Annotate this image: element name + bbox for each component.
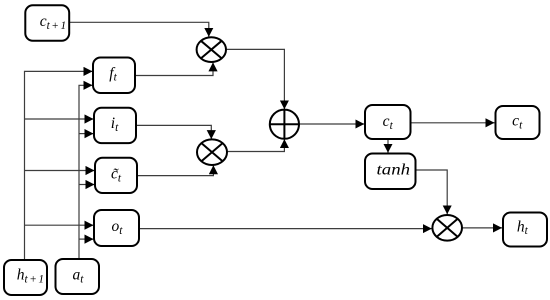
wire: c_t down to tanh bbox=[387, 139, 389, 153]
wire: o_t to multiply M3 bbox=[139, 228, 432, 230]
box f_t bbox=[93, 58, 135, 94]
wire: a net branch to i_t bbox=[79, 133, 94, 135]
multiply node M2 bbox=[197, 139, 227, 165]
wire: h net branch to o_t bbox=[25, 224, 94, 226]
wire: tanh to multiply M3 bbox=[416, 170, 448, 214]
multiply node M3 bbox=[432, 215, 462, 241]
wire: c_t to c_t output bbox=[411, 122, 495, 124]
wire: a_t net vertical + top branch to f_t bbox=[79, 85, 93, 259]
box h_{t+1} bbox=[4, 260, 47, 295]
box h_t bbox=[503, 213, 547, 247]
multiply node M1 bbox=[197, 37, 226, 62]
wire: i_t to multiply M2 bbox=[136, 125, 211, 139]
box c_{t+1} bbox=[25, 5, 69, 41]
wire: h net branch to i_t bbox=[25, 118, 94, 120]
box i_t bbox=[94, 108, 136, 143]
box c_t middle bbox=[365, 105, 411, 139]
box a_t bbox=[56, 259, 100, 294]
wire: M2 to plus P1 bbox=[227, 139, 284, 151]
box tanh bbox=[365, 154, 416, 190]
wire: c_{t+1} to multiply M1 bbox=[69, 22, 209, 37]
plus node P1 bbox=[270, 110, 299, 139]
wire: a net branch to o_t bbox=[79, 238, 94, 240]
box o_t bbox=[94, 210, 139, 246]
box c_t right output bbox=[496, 106, 540, 139]
wire: M3 to h_t bbox=[462, 227, 502, 229]
wire: M1 to plus P1 bbox=[226, 49, 284, 109]
wire: h_{t+1} net vertical + top branch to f_t bbox=[25, 71, 93, 260]
wire: f_t to multiply M1 bbox=[135, 62, 213, 75]
box cbar_t bbox=[95, 158, 137, 193]
wire: cbar_t to multiply M2 bbox=[137, 165, 213, 175]
svg-text:tanh: tanh bbox=[377, 162, 411, 179]
wire: a net branch to cbar_t bbox=[79, 184, 95, 186]
wire: P1 to c_t bbox=[299, 123, 364, 125]
wire: h net branch to cbar_t bbox=[25, 170, 95, 172]
